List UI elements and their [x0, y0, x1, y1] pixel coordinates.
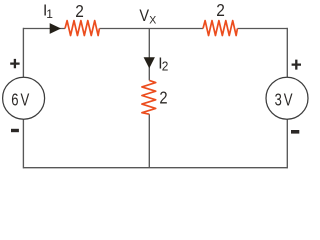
svg-text:V: V: [139, 7, 149, 25]
wire: top rail left segment: [23, 28, 65, 30]
polarity + of V2: [292, 60, 301, 70]
svg-text:2: 2: [162, 59, 169, 74]
svg-text:X: X: [149, 14, 156, 26]
voltage source V1 (6 V) circle: [3, 77, 45, 119]
svg-text:2: 2: [216, 0, 225, 20]
svg-text:2: 2: [75, 1, 84, 21]
svg-text:3: 3: [275, 89, 282, 109]
current arrow I2: [144, 57, 155, 68]
wire: middle branch lower: [148, 114, 150, 168]
wire: top rail middle segment through node Vx: [99, 28, 203, 30]
wire: top rail right segment: [237, 28, 287, 30]
wire: middle branch upper: [148, 29, 150, 81]
resistor R2 (right 2 ohm): [203, 21, 237, 36]
current arrow I1: [50, 23, 61, 34]
polarity - of V1: [11, 129, 19, 132]
resistor R1 (left 2 ohm): [65, 21, 99, 36]
svg-text:6: 6: [11, 89, 18, 109]
svg-text:V: V: [284, 89, 293, 109]
polarity - of V2: [291, 130, 299, 134]
wire: bottom rail: [23, 167, 287, 169]
wire: left branch upper: [22, 28, 24, 78]
svg-text:V: V: [21, 89, 30, 109]
svg-text:1: 1: [46, 7, 53, 21]
polarity + of V1: [10, 59, 19, 68]
wire: right branch lower: [286, 119, 288, 168]
voltage source V2 (3 V) circle: [266, 77, 308, 119]
wire: left branch lower: [22, 119, 24, 168]
svg-text:2: 2: [159, 87, 167, 107]
wire: right branch upper: [286, 28, 288, 78]
resistor R3 (middle 2 ohm, vertical): [142, 80, 156, 114]
